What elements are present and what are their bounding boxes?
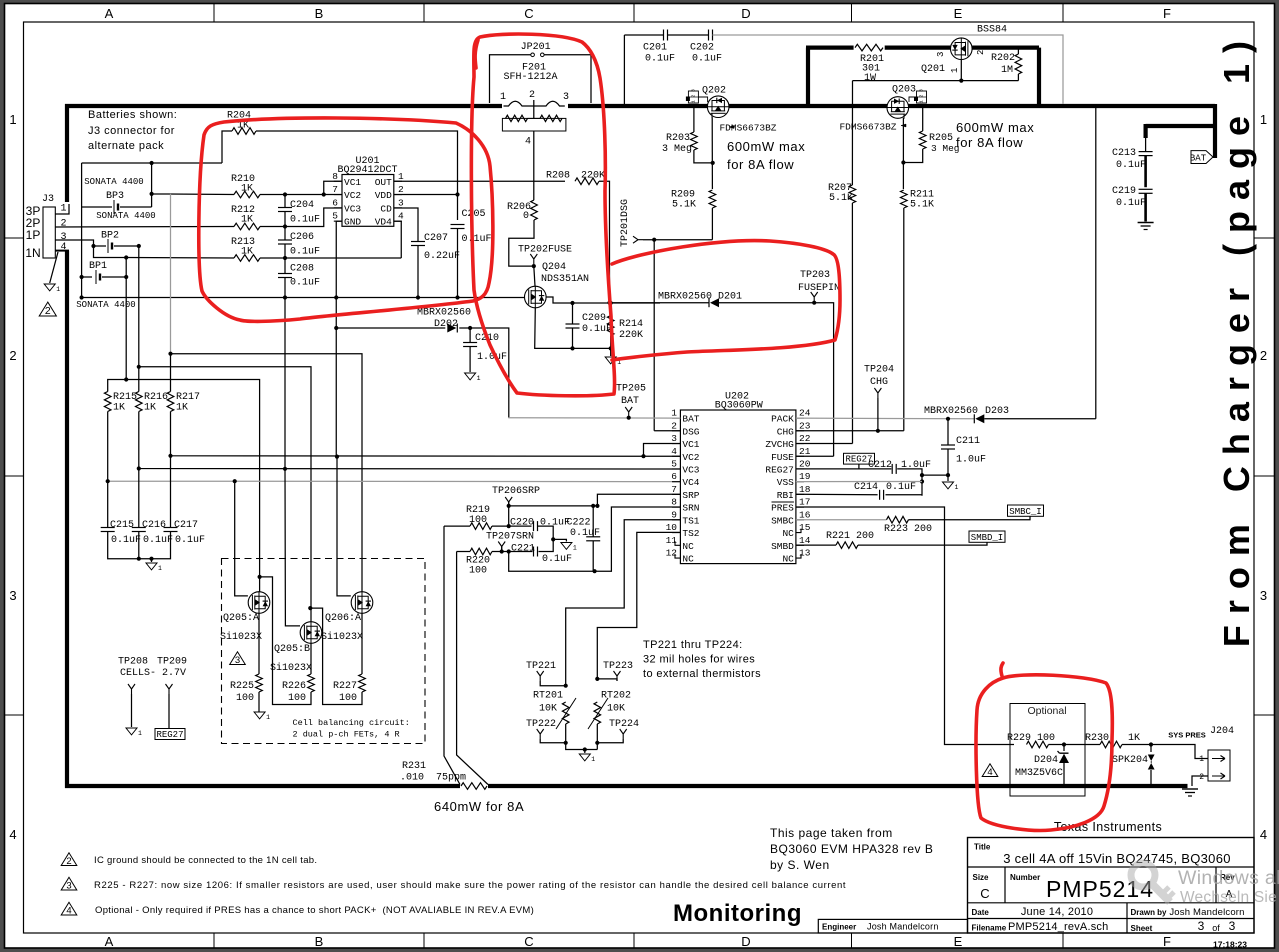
- svg-text:C211: C211: [956, 436, 980, 447]
- svg-text:PRES: PRES: [771, 503, 794, 514]
- wire R203 net: [694, 108, 713, 163]
- svg-text:R203: R203: [666, 133, 690, 144]
- svg-text:0.1uF: 0.1uF: [290, 247, 320, 258]
- svg-text:C201: C201: [643, 43, 667, 54]
- svg-text:2: 2: [66, 856, 71, 867]
- svg-text:5: 5: [671, 458, 677, 469]
- optional box: [1010, 704, 1085, 797]
- wire R215 top net: [108, 380, 260, 592]
- wire J3 pin4 to bus: [55, 250, 69, 252]
- wire VDD pin2: [394, 194, 458, 196]
- wire VC4 long net: [107, 412, 109, 482]
- svg-text:FDMS6673BZ: FDMS6673BZ: [839, 122, 896, 133]
- svg-text:4: 4: [525, 137, 531, 148]
- svg-text:8: 8: [332, 171, 338, 182]
- wire Q204 drain right: [546, 297, 660, 303]
- wire gate net R202 bottom: [853, 80, 1019, 82]
- svg-text:16: 16: [799, 509, 811, 520]
- note triangle 3 in box: [230, 652, 246, 665]
- svg-text:A: A: [105, 934, 114, 949]
- svg-text:R229 100: R229 100: [1007, 733, 1055, 744]
- svg-text:C: C: [524, 6, 533, 21]
- svg-text:2: 2: [919, 94, 925, 97]
- svg-text:June 14, 2010: June 14, 2010: [1021, 906, 1093, 918]
- svg-text:0.1uF: 0.1uF: [111, 535, 141, 546]
- svg-text:Sheet: Sheet: [1131, 924, 1153, 933]
- svg-text:3: 3: [936, 52, 946, 57]
- svg-text:1: 1: [690, 100, 696, 103]
- svg-text:C213: C213: [1112, 148, 1136, 159]
- wire optional row: [1049, 745, 1209, 759]
- wire BP2 net: [94, 246, 139, 367]
- svg-text:19: 19: [799, 471, 811, 482]
- svg-text:NC: NC: [682, 554, 694, 565]
- svg-text:1K: 1K: [113, 403, 125, 414]
- svg-text:Date: Date: [972, 908, 990, 917]
- svg-text:1K: 1K: [241, 215, 253, 226]
- wire C220 right: [538, 526, 567, 541]
- svg-text:J3 connector for: J3 connector for: [88, 125, 175, 137]
- svg-text:11: 11: [666, 535, 678, 546]
- svg-text:VC2: VC2: [682, 452, 699, 463]
- grid row ticks right: [1254, 237, 1275, 239]
- svg-text:NC: NC: [782, 528, 794, 539]
- wire R207 net DSG gate: [851, 81, 853, 444]
- svg-text:0.1uF: 0.1uF: [582, 324, 612, 335]
- svg-text:NC: NC: [782, 554, 794, 565]
- svg-text:Filename: Filename: [972, 924, 1007, 933]
- wire column VC2 to gate: [337, 457, 351, 596]
- wire column VC3 to gate: [285, 298, 300, 626]
- flag BAT: [1191, 151, 1213, 164]
- svg-text:TP203: TP203: [800, 270, 830, 281]
- svg-text:Si1023X: Si1023X: [321, 631, 363, 643]
- wire Q204 source down: [535, 308, 611, 349]
- svg-text:3: 3: [9, 588, 16, 603]
- svg-text:1: 1: [61, 204, 67, 215]
- svg-text:1: 1: [591, 756, 595, 763]
- svg-text:Q203: Q203: [892, 85, 916, 96]
- svg-text:C221: C221: [511, 544, 535, 555]
- svg-text:0.1uF: 0.1uF: [542, 554, 572, 565]
- svg-text:R226: R226: [282, 681, 306, 692]
- wire cap stack: [284, 195, 286, 298]
- svg-text:Q205:B: Q205:B: [274, 644, 310, 655]
- wire TS1 net: [566, 520, 680, 686]
- wire Q205A to R225: [258, 613, 260, 674]
- wire R205 net: [903, 108, 922, 163]
- cell balancing dashed box: [222, 559, 426, 744]
- svg-text:1: 1: [1260, 112, 1267, 127]
- wire C207 net: [394, 208, 418, 298]
- svg-text:2: 2: [9, 348, 16, 363]
- svg-text:TP221: TP221: [526, 661, 556, 672]
- svg-text:IC ground should be connected: IC ground should be connected to the 1N …: [94, 855, 317, 866]
- wire Q201 drain: [960, 60, 962, 81]
- svg-text:1: 1: [56, 286, 60, 293]
- svg-text:C215: C215: [110, 520, 134, 531]
- ground under C219: [1138, 222, 1154, 224]
- svg-text:VC4: VC4: [682, 477, 699, 488]
- svg-text:0.1uF: 0.1uF: [462, 234, 492, 245]
- ground thermistors: [579, 754, 590, 761]
- svg-text:TS1: TS1: [682, 515, 699, 526]
- netbox SMBD_I: [969, 531, 1005, 542]
- svg-text:1W: 1W: [864, 73, 876, 84]
- svg-text:0.22uF: 0.22uF: [424, 251, 460, 262]
- svg-text:R216: R216: [144, 392, 168, 403]
- svg-text:C204: C204: [290, 200, 314, 211]
- svg-text:REG27: REG27: [765, 464, 794, 475]
- svg-text:alternate pack: alternate pack: [88, 140, 164, 152]
- svg-text:BP2: BP2: [101, 231, 119, 242]
- wire Q206A to R227: [361, 613, 363, 674]
- svg-text:CHG: CHG: [870, 377, 888, 388]
- svg-text:1K: 1K: [241, 247, 253, 258]
- svg-text:C: C: [524, 934, 533, 949]
- svg-text:for 8A flow: for 8A flow: [956, 135, 1023, 150]
- svg-text:VC1: VC1: [344, 177, 361, 188]
- wire R225 to ground: [258, 692, 260, 712]
- note triangle 2: [61, 853, 77, 866]
- wire REG27 net: [796, 469, 922, 496]
- svg-text:NC: NC: [682, 541, 694, 552]
- svg-text:R217: R217: [176, 392, 200, 403]
- wire ZVCHG net: [796, 443, 853, 445]
- svg-text:Engineer: Engineer: [822, 923, 856, 932]
- svg-text:3: 3: [563, 92, 569, 103]
- svg-text:VC3: VC3: [682, 464, 699, 475]
- wire C213 net: [1145, 138, 1147, 152]
- svg-text:R227: R227: [333, 681, 357, 692]
- svg-text:C: C: [980, 886, 989, 901]
- svg-text:Optional - Only required if PR: Optional - Only required if PRES has a c…: [95, 905, 534, 916]
- svg-text:BP3: BP3: [106, 191, 124, 202]
- svg-text:5.1K: 5.1K: [672, 200, 696, 211]
- svg-text:Si1023X: Si1023X: [220, 631, 262, 643]
- svg-text:VD4: VD4: [375, 217, 392, 228]
- svg-text:9: 9: [671, 509, 677, 520]
- wire PACK net: [796, 417, 974, 420]
- svg-text:C202: C202: [690, 43, 714, 54]
- svg-text:R223 200: R223 200: [884, 524, 932, 535]
- wire CHG net: [796, 430, 904, 432]
- svg-text:CHG: CHG: [777, 426, 794, 437]
- svg-text:1.0uF: 1.0uF: [956, 455, 986, 466]
- ground under TP208: [126, 728, 137, 735]
- wire DSG pin2: [654, 430, 680, 432]
- svg-text:Batteries shown:: Batteries shown:: [88, 109, 177, 121]
- svg-text:TP207SRN: TP207SRN: [486, 532, 534, 543]
- svg-text:2: 2: [1260, 348, 1267, 363]
- svg-text:TP208: TP208: [118, 657, 148, 668]
- svg-text:TP205: TP205: [616, 384, 646, 395]
- svg-text:23: 23: [799, 420, 811, 431]
- svg-text:2: 2: [61, 219, 67, 230]
- ground under R214: [605, 357, 616, 364]
- svg-text:0.1uF: 0.1uF: [645, 54, 675, 65]
- note triangle 4: [982, 764, 998, 777]
- svg-text:R221 200: R221 200: [826, 531, 874, 542]
- svg-text:0.1uF: 0.1uF: [290, 278, 320, 289]
- svg-text:1.0uF: 1.0uF: [901, 460, 931, 471]
- wire Q203 drain down: [902, 118, 904, 189]
- svg-text:C216: C216: [142, 520, 166, 531]
- svg-text:220K: 220K: [619, 330, 643, 341]
- svg-text:MBRX02560: MBRX02560: [924, 406, 978, 417]
- svg-text:0.1uF: 0.1uF: [540, 518, 570, 529]
- svg-text:Q201: Q201: [921, 64, 945, 75]
- svg-text:0.1uF: 0.1uF: [1116, 198, 1146, 209]
- svg-text:100: 100: [236, 693, 254, 704]
- svg-text:14: 14: [799, 535, 811, 546]
- svg-text:TS2: TS2: [682, 528, 699, 539]
- wire fuse pin2 down: [533, 131, 535, 200]
- svg-text:BAT: BAT: [621, 396, 639, 407]
- svg-text:3: 3: [398, 197, 404, 208]
- svg-text:OUT: OUT: [375, 177, 392, 188]
- wire VSS net: [796, 481, 922, 483]
- wire C201 C202 net: [624, 35, 708, 104]
- svg-text:3 cell 4A off 15Vin BQ24745, B: 3 cell 4A off 15Vin BQ24745, BQ3060: [1003, 851, 1231, 866]
- wire TP209 to REG27: [168, 694, 170, 729]
- svg-text:SMBD: SMBD: [771, 541, 794, 552]
- svg-text:MBRX02560 D201: MBRX02560 D201: [658, 292, 742, 303]
- ground under C210: [465, 373, 476, 380]
- svg-text:FDMS6673BZ: FDMS6673BZ: [719, 123, 776, 134]
- svg-text:of: of: [1212, 923, 1220, 933]
- svg-text:BAT: BAT: [1190, 154, 1207, 164]
- wire TS2 net: [597, 532, 680, 679]
- svg-text:7: 7: [332, 184, 338, 195]
- svg-text:0.1uF: 0.1uF: [1116, 160, 1146, 171]
- svg-text:C207: C207: [424, 233, 448, 244]
- wire fuse pin2 upper: [533, 100, 535, 118]
- svg-text:Wechseln Sie zu: Wechseln Sie zu: [1180, 889, 1279, 906]
- wire BAT net: [628, 416, 630, 419]
- red loop around optional box: [976, 675, 1112, 831]
- svg-text:VC2: VC2: [344, 190, 361, 201]
- svg-text:R202: R202: [991, 53, 1015, 64]
- svg-text:2: 2: [45, 306, 51, 317]
- svg-text:R215: R215: [113, 392, 137, 403]
- title block frame: [968, 838, 1255, 934]
- svg-text:TP206SRP: TP206SRP: [492, 486, 540, 497]
- wire sense column VC verticals: [170, 194, 172, 354]
- svg-text:1: 1: [398, 171, 404, 182]
- svg-text:24: 24: [799, 408, 811, 419]
- svg-text:TP221 thru TP224:: TP221 thru TP224:: [643, 639, 743, 651]
- wire TP222: [540, 739, 566, 743]
- svg-text:7: 7: [671, 484, 677, 495]
- svg-text:VSS: VSS: [777, 477, 794, 488]
- svg-text:D204: D204: [1034, 755, 1058, 766]
- svg-text:SPK204: SPK204: [1112, 755, 1148, 766]
- svg-text:1K: 1K: [144, 403, 156, 414]
- svg-text:SONATA 4400: SONATA 4400: [96, 211, 155, 221]
- svg-text:640mW for 8A: 640mW for 8A: [434, 799, 524, 814]
- svg-text:R225: R225: [230, 681, 254, 692]
- svg-text:1N: 1N: [25, 246, 40, 260]
- svg-text:3: 3: [66, 880, 71, 891]
- netbox REG27 upper: [844, 453, 875, 464]
- wire C219 to ground: [1144, 193, 1147, 221]
- svg-text:BAT: BAT: [682, 414, 699, 425]
- wire F201 frame: [490, 55, 592, 103]
- fuse element bumps: [504, 101, 565, 106]
- svg-text:3: 3: [235, 655, 240, 666]
- svg-text:From Charger (page 1): From Charger (page 1): [1216, 30, 1257, 647]
- thick bus: pack+ top rail: [65, 104, 69, 202]
- wire R204 left: [222, 131, 232, 163]
- svg-text:VDD: VDD: [375, 190, 392, 201]
- svg-text:3: 3: [1229, 919, 1236, 933]
- svg-text:10K: 10K: [607, 704, 625, 715]
- wire C205 bottom: [457, 229, 459, 298]
- thick bus: charger loop top: [806, 48, 1039, 106]
- svg-text:100: 100: [469, 566, 487, 577]
- wire TP221: [540, 681, 566, 686]
- svg-text:D: D: [741, 6, 750, 21]
- red loop around U201 block: [199, 118, 493, 321]
- svg-text:220K: 220K: [581, 171, 605, 182]
- svg-text:GND: GND: [344, 217, 361, 228]
- svg-text:SRN: SRN: [682, 503, 699, 514]
- svg-text:Q206:A: Q206:A: [325, 613, 361, 624]
- svg-text:BQ3060 EVM HPA328 rev B: BQ3060 EVM HPA328 rev B: [770, 842, 933, 856]
- wire J3 pin3 net: [55, 240, 126, 258]
- svg-text:SMBC_I: SMBC_I: [1009, 507, 1041, 517]
- wire R211 down to CHG: [903, 208, 905, 431]
- wire C222 net: [592, 506, 594, 571]
- netbox REG27 lower: [155, 729, 185, 740]
- wire J3 pin4 to ground: [50, 252, 58, 283]
- svg-text:TP222: TP222: [526, 719, 556, 730]
- wire TP223: [597, 679, 617, 681]
- svg-text:TP201DSG: TP201DSG: [620, 199, 631, 247]
- wire R204 right to VDD rail: [256, 131, 458, 220]
- svg-text:R230: R230: [1085, 733, 1109, 744]
- svg-text:20: 20: [799, 458, 811, 469]
- svg-text:3: 3: [1198, 919, 1205, 933]
- svg-text:Title: Title: [974, 843, 991, 852]
- wire VC3 long net: [139, 412, 680, 470]
- red loop around D201 TP203: [612, 241, 840, 360]
- svg-text:4: 4: [9, 827, 16, 842]
- wire SRP net: [444, 494, 680, 784]
- wire column VC4 to gate: [235, 481, 248, 596]
- ground under C211: [943, 482, 954, 489]
- ground under decoupling caps: [146, 563, 157, 570]
- svg-text:2: 2: [976, 50, 986, 55]
- svg-text:C209: C209: [582, 313, 606, 324]
- svg-text:0.1uF: 0.1uF: [886, 482, 916, 493]
- svg-text:22: 22: [799, 433, 811, 444]
- svg-text:to external thermistors: to external thermistors: [643, 668, 761, 680]
- wire R217 top net: [171, 354, 363, 592]
- wire Q205B to R226: [310, 643, 312, 674]
- svg-text:C217: C217: [174, 520, 198, 531]
- svg-text:Q204: Q204: [542, 262, 566, 273]
- svg-text:Size: Size: [973, 873, 990, 882]
- svg-text:R208: R208: [546, 171, 570, 182]
- wire R213 net to VD4: [126, 221, 401, 258]
- svg-text:SFH-1212A: SFH-1212A: [503, 72, 557, 83]
- svg-text:0.1uF: 0.1uF: [175, 535, 205, 546]
- svg-text:1P: 1P: [26, 228, 41, 242]
- svg-text:REG27: REG27: [156, 730, 183, 740]
- wire R206 to TP202: [509, 220, 534, 266]
- svg-text:SMBC: SMBC: [771, 515, 794, 526]
- grid column ticks bottom: [213, 933, 215, 948]
- svg-text:RT202: RT202: [601, 691, 631, 702]
- svg-text:100: 100: [339, 693, 357, 704]
- svg-text:2: 2: [671, 420, 677, 431]
- svg-text:Q202: Q202: [702, 86, 726, 97]
- svg-text:1K: 1K: [1128, 733, 1140, 744]
- wire SMBD net: [796, 542, 987, 545]
- svg-text:B: B: [315, 934, 324, 949]
- svg-text:FUSE: FUSE: [771, 452, 794, 463]
- svg-text:A: A: [105, 6, 114, 21]
- svg-text:Si1023X: Si1023X: [270, 662, 312, 674]
- svg-text:B: B: [315, 6, 324, 21]
- svg-text:12: 12: [666, 548, 678, 559]
- svg-text:by S. Wen: by S. Wen: [770, 858, 830, 872]
- svg-text:Josh Mandelcorn: Josh Mandelcorn: [867, 922, 939, 932]
- svg-text:6: 6: [332, 197, 338, 208]
- engineer box: [818, 919, 967, 933]
- svg-text:TP209: TP209: [157, 657, 187, 668]
- svg-text:2 dual p-ch FETs, 4 R: 2 dual p-ch FETs, 4 R: [293, 730, 400, 740]
- svg-text:J3: J3: [42, 194, 54, 205]
- svg-text:32 mil holes for wires: 32 mil holes for wires: [643, 654, 755, 666]
- wire OUT pin1 to R208: [394, 180, 565, 182]
- note triangle 4 bottom: [61, 902, 77, 915]
- svg-text:CELLS- 2.7V: CELLS- 2.7V: [120, 668, 186, 679]
- thick bus: BAT stub: [1146, 124, 1215, 138]
- svg-text:4: 4: [1260, 827, 1267, 842]
- svg-text:C206: C206: [290, 232, 314, 243]
- wire R208 right down to D201 wire: [599, 181, 610, 302]
- svg-text:R214: R214: [619, 319, 643, 330]
- svg-text:10K: 10K: [539, 704, 557, 715]
- svg-text:1.0uF: 1.0uF: [477, 352, 507, 363]
- svg-text:D203: D203: [985, 406, 1009, 417]
- svg-text:4: 4: [671, 446, 677, 457]
- svg-text:1: 1: [955, 484, 959, 491]
- wire RBI net C214: [796, 493, 922, 496]
- svg-text:3: 3: [919, 89, 925, 92]
- svg-text:2: 2: [690, 94, 696, 97]
- svg-text:13: 13: [799, 548, 811, 559]
- wire J204 pin2 to bus: [1192, 776, 1208, 786]
- svg-text:C214: C214: [854, 482, 878, 493]
- svg-text:3: 3: [671, 433, 677, 444]
- svg-text:C220: C220: [510, 518, 534, 529]
- svg-text:8: 8: [671, 497, 677, 508]
- svg-text:600mW max: 600mW max: [727, 139, 805, 154]
- svg-text:D: D: [741, 934, 750, 949]
- netbox SMBC_I: [1008, 505, 1044, 516]
- svg-text:2: 2: [1199, 773, 1204, 782]
- ground pin4: [44, 284, 55, 291]
- svg-text:Number: Number: [1010, 873, 1040, 882]
- wire PRES net: [796, 507, 1014, 745]
- svg-text:TP223: TP223: [603, 661, 633, 672]
- svg-text:CD: CD: [380, 203, 392, 214]
- watermark key icon: [1131, 863, 1174, 902]
